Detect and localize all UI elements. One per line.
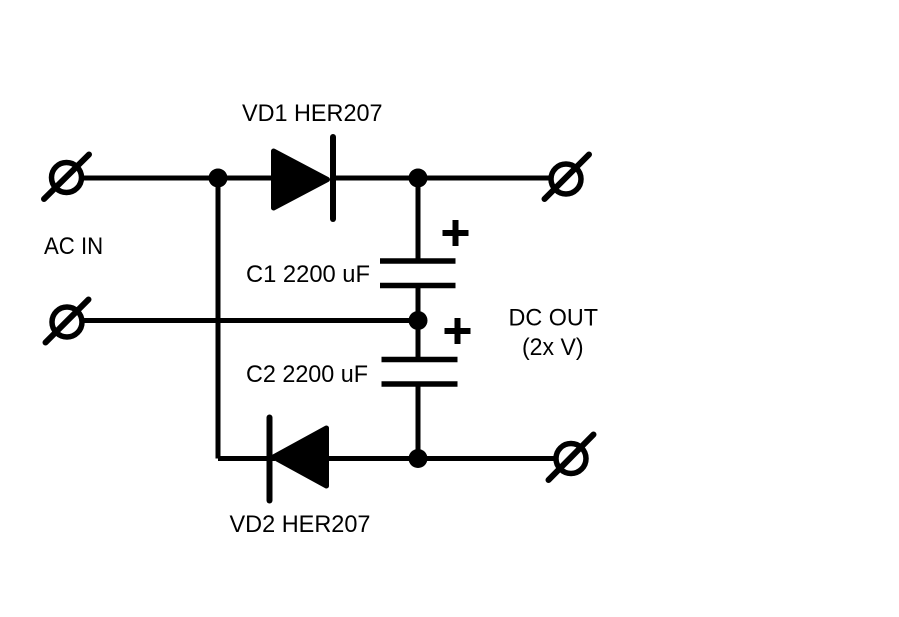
wire VD1 cathode to node B bbox=[333, 176, 418, 181]
wire T1 to node A bbox=[83, 176, 218, 181]
terminal T1 (AC IN top) bbox=[44, 155, 89, 200]
vertical wire node A to bottom corner bbox=[216, 178, 221, 459]
svg-text:DC OUT: DC OUT bbox=[509, 305, 599, 332]
wire corner to VD2 cathode bbox=[218, 456, 275, 461]
wire T2 to node C bbox=[84, 318, 418, 323]
C2 polarity plus bbox=[445, 318, 471, 344]
svg-text:(2x V): (2x V) bbox=[522, 334, 584, 361]
wire node B down to C1 bbox=[416, 178, 421, 261]
svg-text:C1 2200 uF: C1 2200 uF bbox=[246, 261, 370, 288]
diode VD2 bbox=[270, 418, 327, 501]
wire C1 to node C bbox=[416, 286, 421, 321]
wire node C to C2 bbox=[416, 321, 421, 360]
terminal T4 (DC OUT bottom) bbox=[549, 435, 594, 481]
capacitor C2 bbox=[382, 360, 458, 385]
node C junction dot bbox=[409, 311, 428, 330]
wire VD2 anode to node D bbox=[326, 456, 418, 461]
svg-text:VD1 HER207: VD1 HER207 bbox=[242, 100, 383, 127]
terminal T3 (DC OUT top) bbox=[545, 155, 590, 200]
node B junction dot bbox=[409, 169, 428, 188]
svg-text:C2 2200 uF: C2 2200 uF bbox=[246, 361, 368, 388]
node A junction dot bbox=[209, 169, 228, 188]
wire node B to T3 bbox=[418, 176, 550, 181]
C1 polarity plus bbox=[443, 220, 469, 246]
node D junction dot bbox=[409, 449, 428, 468]
wire node A to VD1 anode bbox=[218, 176, 275, 181]
wire C2 to node D bbox=[416, 384, 421, 459]
terminal T2 (AC IN bottom) bbox=[46, 300, 89, 343]
diode VD1 bbox=[274, 137, 334, 219]
svg-text:VD2 HER207: VD2 HER207 bbox=[230, 511, 371, 538]
capacitor C1 bbox=[380, 261, 456, 286]
svg-text:AC IN: AC IN bbox=[44, 233, 103, 260]
wire node D to T4 bbox=[418, 456, 554, 461]
